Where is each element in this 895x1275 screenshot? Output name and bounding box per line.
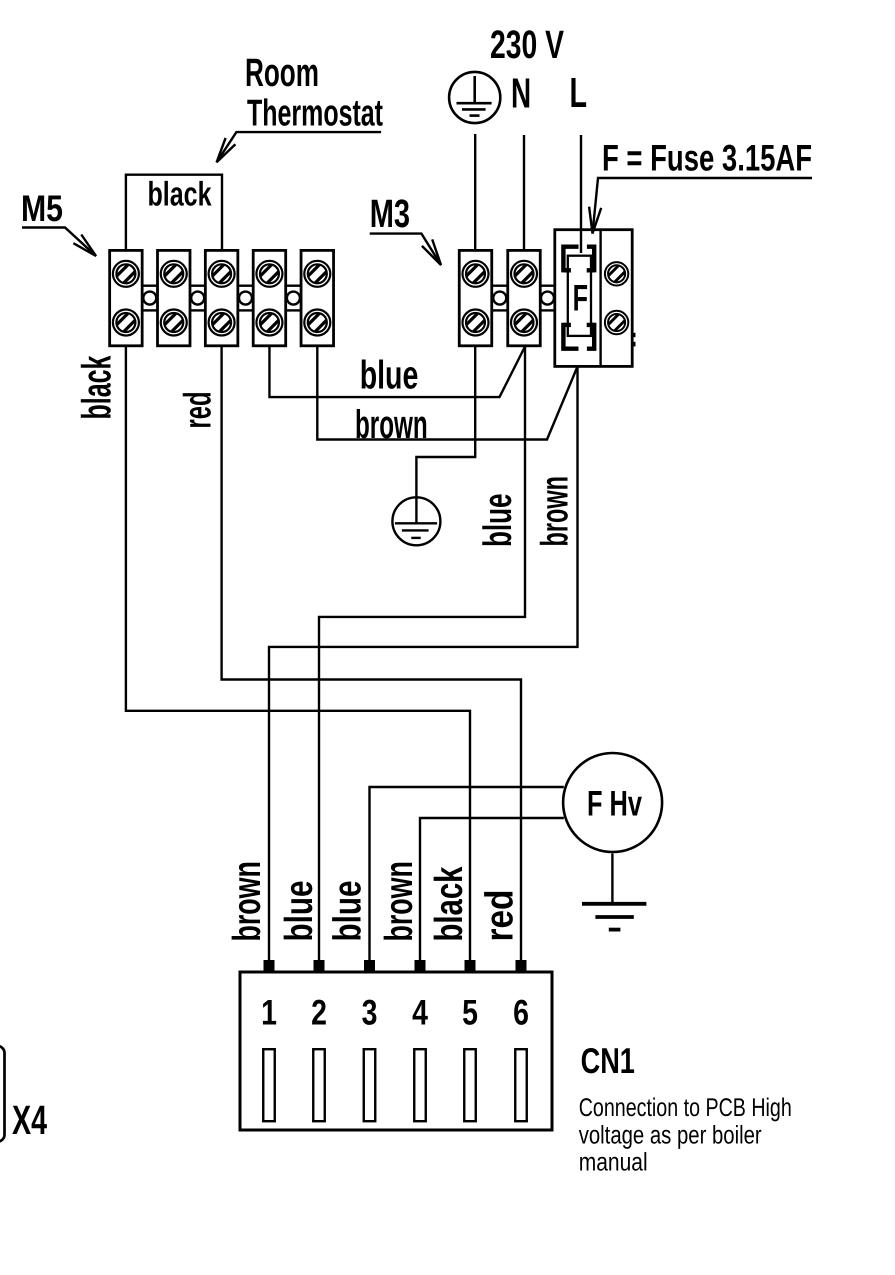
svg-text:brown: brown <box>355 403 428 447</box>
svg-text:F = Fuse 3.15AF: F = Fuse 3.15AF <box>602 138 812 179</box>
svg-text:black: black <box>428 866 471 941</box>
svg-text:X4: X4 <box>12 1097 47 1143</box>
svg-text:M5: M5 <box>21 188 63 229</box>
svg-text:brown: brown <box>534 476 577 546</box>
svg-text:manual: manual <box>579 1148 648 1176</box>
svg-text:red: red <box>177 391 220 428</box>
svg-text:N: N <box>511 70 531 117</box>
svg-text:6: 6 <box>513 992 529 1032</box>
svg-text:M3: M3 <box>370 192 410 236</box>
svg-text:blue: blue <box>278 881 321 942</box>
svg-text:Room: Room <box>245 51 319 95</box>
svg-text:Thermostat: Thermostat <box>247 91 383 133</box>
svg-text:brown: brown <box>378 861 421 941</box>
svg-text:black: black <box>148 176 212 214</box>
svg-text:black: black <box>74 355 120 419</box>
svg-text:blue: blue <box>326 881 369 942</box>
svg-text:5: 5 <box>462 992 478 1032</box>
svg-text:F: F <box>573 278 588 319</box>
svg-text:Connection to PCB High: Connection to PCB High <box>579 1094 792 1122</box>
svg-text:4: 4 <box>412 992 428 1032</box>
svg-text:blue: blue <box>476 493 520 547</box>
svg-text:F Hv: F Hv <box>587 783 642 823</box>
svg-text:230 V: 230 V <box>490 23 564 67</box>
svg-text:2: 2 <box>311 992 327 1032</box>
svg-text:voltage as per boiler: voltage as per boiler <box>579 1121 762 1149</box>
svg-text:red: red <box>478 890 521 942</box>
svg-text:CN1: CN1 <box>581 1041 635 1081</box>
svg-text:L: L <box>570 69 588 116</box>
svg-text:3: 3 <box>362 992 378 1032</box>
svg-text:brown: brown <box>226 861 269 941</box>
svg-text:1: 1 <box>261 992 277 1032</box>
svg-text:blue: blue <box>360 354 419 398</box>
